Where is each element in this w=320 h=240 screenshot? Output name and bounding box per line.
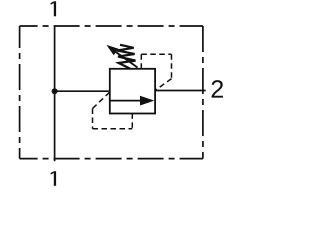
enclosure (dashed cartridge boundary) [20, 26, 203, 159]
pilot line (top, to spring chamber) [141, 54, 171, 90]
wire: inlet line to valve [55, 90, 111, 92]
port label 1 (bottom) [51, 171, 57, 186]
flow arrow inside valve [110, 96, 154, 106]
port label 2 (right) [212, 80, 223, 97]
junction dot on port 1 line [52, 88, 58, 94]
pilot line (bottom, from inlet) [93, 92, 133, 129]
adjustable spring [117, 45, 135, 69]
valve body V1 (relief valve square) [110, 69, 155, 114]
spring adjustment arrow [106, 45, 137, 68]
wire: port 1 vertical line [54, 26, 56, 161]
port label 1 (top) [51, 1, 57, 16]
wire: outlet line to port 2 [155, 90, 206, 92]
